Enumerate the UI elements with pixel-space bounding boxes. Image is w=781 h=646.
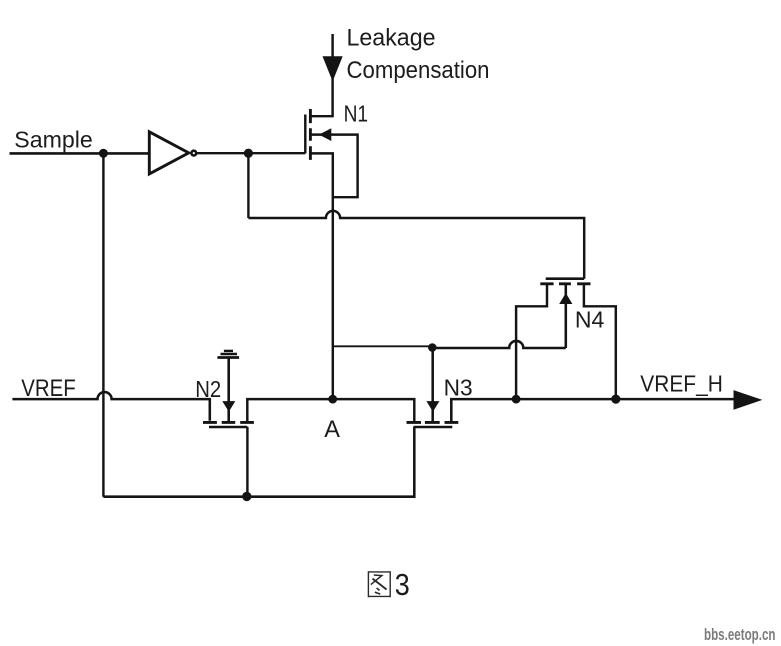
wire Sample input lead <box>10 152 150 155</box>
inverter U1 output bubble <box>191 151 196 156</box>
arrow N3 bulk down <box>426 401 439 412</box>
node bottom rail junction dot <box>242 492 251 501</box>
svg-text:N2: N2 <box>195 376 221 402</box>
arrow N4 bulk up <box>559 293 572 304</box>
wire junction to N4 bulk with hop <box>432 341 566 348</box>
wire N2 bulk from ground <box>227 358 230 422</box>
wire N4 bulk vertical <box>565 284 568 348</box>
wire junction down <box>247 153 249 218</box>
svg-text:Compensation: Compensation <box>347 57 490 84</box>
node output rail junction dot left <box>512 395 521 404</box>
arrow VREF_H output <box>734 390 763 410</box>
node junction dot at N3 bulk <box>428 343 437 352</box>
arrow leakage compensation down <box>323 56 343 81</box>
wire N2 right terminal through node A to N3 left terminal <box>247 399 414 422</box>
wire VREF lead with hop to N2 left terminal <box>12 392 209 421</box>
node Sample junction dot <box>99 149 108 158</box>
wire Sample vertical down to bottom rail <box>102 153 104 496</box>
transistor N3 channel dashes <box>407 421 459 424</box>
wire N1 drain up <box>310 34 332 116</box>
wire N2 gate down to bottom rail <box>246 427 248 497</box>
arrow N1 bulk left <box>319 128 331 141</box>
transistor N4 gate line <box>546 277 585 280</box>
svg-text:VREF: VREF <box>21 375 75 402</box>
svg-text:N4: N4 <box>575 306 605 332</box>
wire inverter output to N1 gate <box>197 152 305 154</box>
wire N1 bulk loop to source <box>310 135 357 198</box>
wire N1 source down to node A <box>310 153 332 399</box>
wire N3 right terminal to output rail VREF_H <box>451 399 734 422</box>
ground symbol above N2 <box>217 356 239 359</box>
node A junction dot <box>328 395 337 404</box>
transistor N2 gate line <box>209 426 247 429</box>
svg-text:Leakage: Leakage <box>347 25 436 52</box>
wire N4 left terminal down to output rail <box>516 284 547 399</box>
svg-text:VREF_H: VREF_H <box>640 370 723 396</box>
transistor N1 gate line <box>304 115 306 154</box>
label figure caption 图3 <box>368 571 390 597</box>
wire mid horizontal with hop to N4 gate <box>248 211 584 279</box>
arrow N2 bulk down <box>222 401 235 412</box>
svg-text:bbs.eetop.cn: bbs.eetop.cn <box>704 626 776 644</box>
node output rail junction dot right <box>611 395 620 404</box>
transistor N2 channel dashes <box>203 421 254 424</box>
inverter U1 triangle <box>149 132 188 174</box>
svg-text:A: A <box>324 417 340 443</box>
svg-text:3: 3 <box>395 567 410 602</box>
svg-text:N3: N3 <box>444 375 473 401</box>
transistor N4 channel dashes <box>540 282 590 285</box>
svg-text:Sample: Sample <box>14 127 93 153</box>
wire N4 right terminal down to output rail <box>584 284 616 399</box>
wire bottom rail to N3 gate <box>103 427 414 497</box>
transistor N3 gate line <box>414 426 453 429</box>
svg-text:N1: N1 <box>344 100 369 126</box>
transistor N1 channel dashes <box>309 109 312 160</box>
wire N3 bulk vertical <box>431 348 434 422</box>
wire node A line to N3 bulk junction <box>333 345 432 347</box>
node inverter output junction dot <box>244 149 253 158</box>
